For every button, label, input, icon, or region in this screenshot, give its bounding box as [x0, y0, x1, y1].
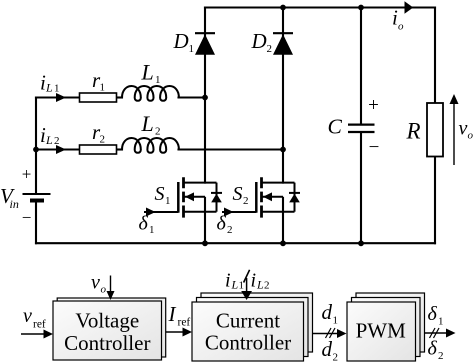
svg-text:v: v — [459, 118, 468, 140]
svg-text:2: 2 — [267, 43, 273, 55]
svg-text:Voltage: Voltage — [75, 309, 139, 333]
svg-text:I: I — [168, 302, 177, 326]
node left rail iL2 — [33, 147, 39, 153]
wire left rail upper — [35, 98, 37, 195]
inductor L1 — [122, 86, 179, 101]
arrow io — [405, 1, 414, 13]
node top rail C — [358, 5, 364, 11]
capacitor C plates — [348, 125, 375, 132]
svg-text:−: − — [369, 137, 380, 158]
wire top rail — [205, 6, 435, 8]
svg-text:δ: δ — [217, 213, 227, 235]
svg-text:−: − — [22, 208, 32, 227]
wire branch iL2 — [36, 148, 80, 150]
svg-text:2: 2 — [54, 135, 60, 147]
svg-text:2: 2 — [100, 134, 106, 146]
wire right rail upper — [434, 8, 436, 104]
svg-text:i: i — [251, 270, 257, 292]
svg-text:L: L — [141, 60, 154, 85]
svg-text:1: 1 — [189, 43, 195, 55]
resistor r1 — [80, 93, 117, 102]
svg-text:+: + — [368, 95, 379, 116]
svg-text:C: C — [328, 115, 343, 139]
diode D2 — [273, 33, 293, 55]
resistor R load — [427, 103, 443, 157]
wire right rail lower — [434, 157, 436, 244]
svg-text:Controller: Controller — [205, 331, 291, 355]
battery Vin plates — [23, 193, 51, 195]
arrow iL1 — [56, 93, 66, 102]
svg-text:+: + — [22, 165, 32, 184]
inductor L2 — [122, 138, 179, 153]
arrow vo into VC — [110, 276, 112, 292]
svg-text:L: L — [45, 133, 53, 147]
node L1-D1 — [202, 95, 208, 101]
svg-text:Controller: Controller — [64, 331, 150, 355]
block Voltage Controller — [53, 298, 166, 360]
wire left rail lower — [35, 201, 37, 244]
svg-text:2: 2 — [227, 224, 233, 236]
svg-text:S: S — [233, 183, 243, 205]
node top rail D2 — [280, 5, 286, 11]
node bottom S2 — [280, 240, 286, 246]
transistor S1 — [144, 177, 222, 243]
svg-text:R: R — [406, 118, 421, 143]
svg-text:ref: ref — [178, 317, 191, 329]
wire D2/S2 drain vertical — [282, 8, 284, 183]
arrow d into PWM — [313, 333, 339, 335]
slash iL bus — [244, 270, 250, 283]
wire capacitor branch — [360, 8, 362, 124]
svg-text:1: 1 — [54, 83, 60, 95]
svg-text:2: 2 — [264, 280, 270, 292]
svg-text:v: v — [91, 272, 100, 294]
arrow iL2 — [56, 145, 66, 154]
wire bottom rail — [36, 242, 435, 244]
svg-text:2: 2 — [155, 126, 161, 138]
svg-text:i: i — [225, 270, 231, 292]
node bottom S1 — [202, 240, 208, 246]
wire D1/S1 drain vertical — [204, 8, 206, 183]
diode D1 — [195, 33, 215, 55]
svg-text:2: 2 — [333, 352, 339, 364]
svg-text:L: L — [256, 278, 264, 292]
svg-text:D: D — [173, 29, 189, 53]
svg-text:1: 1 — [333, 315, 339, 327]
svg-text:in: in — [10, 197, 19, 211]
svg-text:d: d — [322, 337, 333, 361]
svg-text:v: v — [23, 305, 32, 327]
svg-text:Current: Current — [216, 309, 280, 333]
svg-text:o: o — [468, 130, 474, 142]
svg-text:2: 2 — [438, 350, 444, 362]
svg-text:1: 1 — [100, 82, 106, 94]
transistor S2 — [222, 177, 300, 243]
arrow delta out — [425, 332, 448, 334]
svg-text:d: d — [322, 300, 333, 324]
svg-text:o: o — [398, 21, 404, 33]
svg-text:1: 1 — [239, 280, 245, 292]
block Current Controller (stacked) — [192, 293, 313, 361]
svg-text:D: D — [251, 29, 267, 53]
block PWM (stacked) — [347, 293, 425, 361]
node L2-D2 — [280, 147, 286, 153]
svg-text:S: S — [155, 183, 165, 205]
slash d bus — [326, 328, 336, 338]
arrow Iref — [166, 331, 184, 333]
svg-text:1: 1 — [438, 316, 444, 328]
arrow vo output — [453, 104, 455, 165]
arrow iL into CC — [246, 278, 248, 291]
svg-text:1: 1 — [165, 195, 171, 207]
svg-text:L: L — [231, 278, 239, 292]
wire branch iL1 — [36, 96, 80, 98]
svg-text:L: L — [141, 111, 154, 136]
slash delta bus — [430, 328, 440, 338]
svg-text:L: L — [45, 81, 53, 95]
resistor r2 — [80, 145, 117, 154]
svg-text:1: 1 — [155, 74, 161, 86]
arrow vref — [21, 333, 44, 335]
svg-text:1: 1 — [149, 224, 155, 236]
svg-text:PWM: PWM — [356, 319, 407, 343]
svg-text:2: 2 — [243, 195, 249, 207]
svg-text:o: o — [101, 284, 107, 296]
svg-text:δ: δ — [428, 303, 438, 325]
svg-text:ref: ref — [33, 319, 46, 331]
svg-text:δ: δ — [139, 213, 149, 235]
svg-text:δ: δ — [428, 338, 438, 360]
node bottom C — [358, 240, 364, 246]
